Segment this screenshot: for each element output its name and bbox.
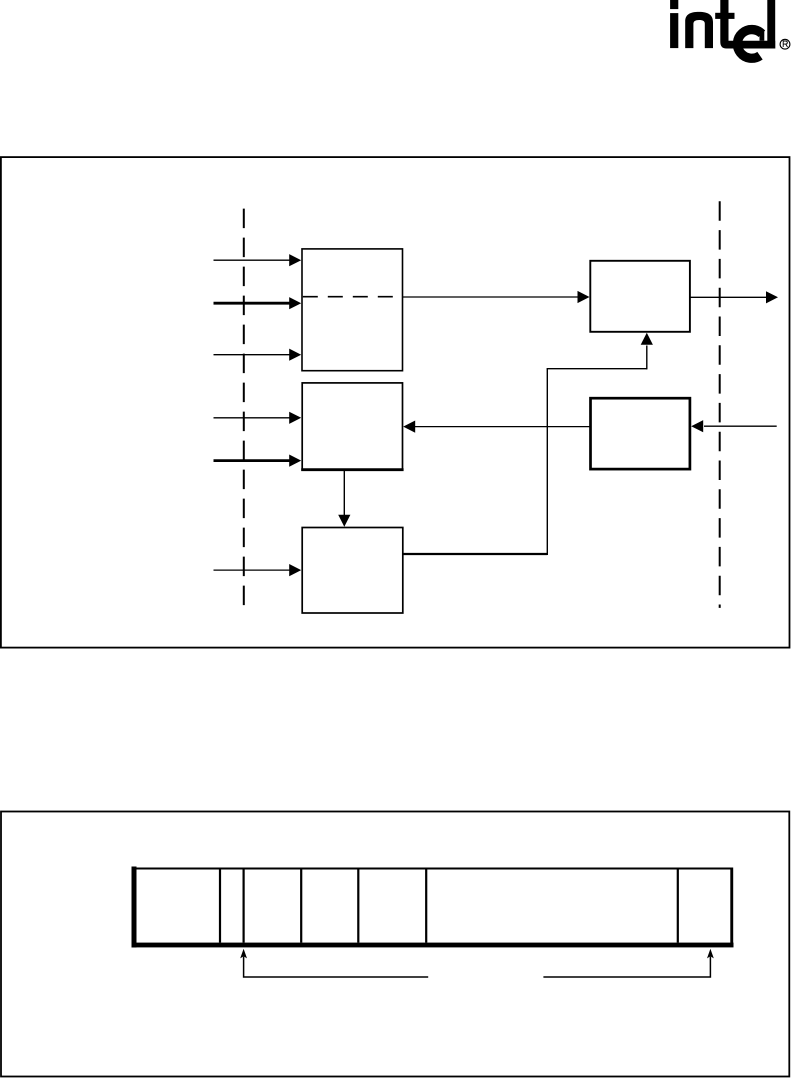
input arrow 3 to block A: [214, 349, 302, 361]
right callout bracket with up arrow: [543, 949, 713, 977]
input arrow 6 to block C: [214, 564, 302, 576]
bit field divider 6: [677, 870, 679, 943]
logo t crossbar: [715, 13, 734, 19]
dashed wire inside block A: [303, 296, 403, 298]
input arrow 4 to block B: [214, 412, 302, 424]
bit field divider 2: [243, 870, 245, 943]
block E (bold): [591, 398, 690, 469]
figure 2 frame: [1, 812, 789, 1077]
intel logo: [670, 0, 775, 49]
logo registered mark: [780, 39, 790, 49]
logo t stem and foot bar / e crossbar: [720, 0, 775, 49]
input arrow 2 (bold) to block A: [214, 297, 302, 309]
bit field divider 5: [425, 870, 427, 943]
block B: [302, 383, 402, 470]
register bar right edge: [730, 868, 733, 946]
wire block B down to block C with arrow: [338, 470, 350, 527]
logo n: [685, 12, 713, 48]
logo i stem: [670, 13, 678, 48]
input arrow from right into block E: [691, 420, 777, 432]
bit field divider 4: [357, 870, 359, 943]
logo l: [767, 0, 775, 49]
output arrow from block D: [690, 291, 778, 303]
dashed bus boundary right: [719, 201, 721, 608]
block A: [302, 249, 403, 371]
logo e bowl: [737, 30, 761, 59]
register bar top edge: [134, 868, 733, 870]
wire block C to block D (feedback path): [403, 333, 653, 555]
block C: [302, 528, 403, 614]
logo e bowl right shoulder: [760, 30, 765, 41]
wire block E to block B with arrow: [403, 421, 590, 433]
figure 1 frame: [1, 157, 790, 647]
block D: [590, 261, 690, 332]
wire block A to block D with arrow: [403, 291, 590, 303]
register bar thick bottom edge: [132, 943, 734, 948]
dashed bus boundary left: [243, 209, 245, 614]
bit field divider 1: [219, 870, 221, 943]
register bar thick left edge: [132, 867, 137, 948]
bit field divider 3: [300, 870, 302, 943]
input arrow 1 to block A: [214, 254, 302, 266]
input arrow 5 (bold) to block B: [214, 455, 302, 467]
left callout bracket with up arrow: [240, 949, 428, 977]
logo i dot: [670, 0, 678, 9]
block B bold bottom edge: [301, 468, 403, 471]
